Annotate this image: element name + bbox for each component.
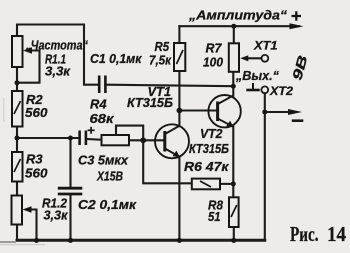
svg-text:ХТ2: ХТ2 [269,84,293,98]
wire R6 right to VT2 emitter line [220,183,233,185]
svg-text:68к: 68к [90,111,116,126]
svg-text:„Амплитуда“: „Амплитуда“ [188,8,288,23]
potentiometer R1.2 body [12,196,23,225]
plus supply arrow [290,23,304,29]
svg-text:КТ315Б: КТ315Б [127,95,173,110]
wire R8 bottom to rail [233,227,235,240]
resistor R6 body [192,179,220,190]
plus sign [292,11,302,20]
wire VT1 emitter down to rail [178,157,180,241]
R7 wiper arrow [240,55,248,61]
node minus branch [262,110,267,115]
R8 power slash [231,205,237,217]
resistor R2 body [12,91,23,127]
node rail C2 [68,238,73,243]
node rail R8 [231,238,236,243]
svg-text:7,5к: 7,5к [149,53,172,68]
node rail VT1 emitter [177,238,182,243]
wire C2 bottom to rail [69,195,71,240]
svg-text:Х15В: Х15В [96,169,123,184]
C3 polarity plus [88,127,95,134]
wire R1.2 wiper loop [31,210,37,241]
faint scan artifact lines [0,98,45,245]
node C1 to VT2 collector [231,84,236,89]
capacitor C2 plates [58,188,83,194]
minus supply arrow [288,109,302,115]
wire R4 tap [116,126,143,141]
R2 power slash [14,101,21,114]
svg-text:R4: R4 [90,97,107,112]
R6 power slash [200,181,211,187]
potentiometer R1.1 body [12,36,23,67]
wire R1.1 bottom to R2 top [16,67,18,91]
wire VT2 base [179,109,216,111]
node VT1 base [140,137,146,143]
svg-text:С1 0,1мк: С1 0,1мк [90,51,143,66]
trimmer R4 body [102,135,130,145]
wire top-left loop from R1.1 top to C1 [17,25,98,85]
wire node A to C3 [17,137,78,139]
svg-text:VT2: VT2 [200,126,223,141]
wire R2 bottom to R3 top [16,127,18,153]
svg-text:КТ315Б: КТ315Б [189,141,229,156]
node R7 rail junction [231,24,236,29]
resistor R3 body [12,152,23,182]
svg-text:Рис.: Рис. [290,222,319,246]
svg-text:„Вых.“: „Вых.“ [235,69,280,83]
ground symbol near XT2 [246,83,259,90]
resistor R8 body [229,197,239,227]
wire R1.2 bottom to rail [16,225,18,241]
resistor R5 body [174,43,185,71]
node R1.1 wiper junction [15,80,20,85]
wire C1 output to VT2 collector node [107,85,234,87]
svg-text:3,3к: 3,3к [45,64,71,79]
transistor VT1 [155,124,189,158]
transistor VT2 [208,95,240,127]
svg-text:R6 47к: R6 47к [184,159,230,174]
wire VT1 base node down and right to R6 left [143,140,192,183]
svg-text:С2 0,1мк: С2 0,1мк [78,197,137,212]
svg-text:51: 51 [208,209,221,224]
svg-text:R3: R3 [26,152,43,167]
node VT2 base tap [177,108,183,114]
svg-text:„Частота“: „Частота“ [25,38,88,53]
wire XT2 down right edge to rail [264,93,266,240]
svg-text:R7: R7 [206,41,223,56]
node C2 branch [68,136,73,141]
node R6 right junction [231,181,236,186]
svg-text:560: 560 [25,166,48,181]
node rail R1.2 wiper [34,238,39,243]
terminal XT1 [262,55,269,62]
capacitor C3 plates [80,131,86,146]
R3 power slash [14,159,21,172]
power rail Amplituda top [179,25,299,27]
wire R1.1 wiper loop [19,51,40,83]
node A R2-R3 junction [15,136,20,141]
R5 power slash [177,50,184,64]
wire R4 right to VT1 base [129,139,164,141]
svg-text:560: 560 [25,105,48,120]
svg-text:100: 100 [203,55,224,70]
wire R7 wiper to XT1 [248,57,262,59]
R1.2 wiper arrow [23,206,32,213]
wire R3 bottom to R1.2 top [16,182,18,196]
minus sign [292,119,304,122]
svg-text:14: 14 [327,222,346,246]
wire minus lead [265,111,290,113]
svg-text:С3 5мкх: С3 5мкх [78,153,129,168]
capacitor C1 plates [99,76,105,94]
potentiometer R7 body [229,43,239,72]
R1.1 wiper arrow [23,47,32,54]
wire R5 bottom to VT1 collector with VT2 base node [178,71,180,126]
wire C3 to R4 [87,138,101,141]
wire R5 top riser [178,26,180,43]
wire C2 branch [69,138,71,187]
svg-text:ХТ1: ХТ1 [253,39,278,53]
wire R7 bottom to VT2 collector [232,72,234,96]
bottom common rail [17,239,265,242]
terminal XT2 [261,86,268,93]
wire R7 top riser [233,26,235,43]
svg-text:3,3к: 3,3к [44,208,69,223]
wire VT2 emitter down to R8 [232,127,234,198]
